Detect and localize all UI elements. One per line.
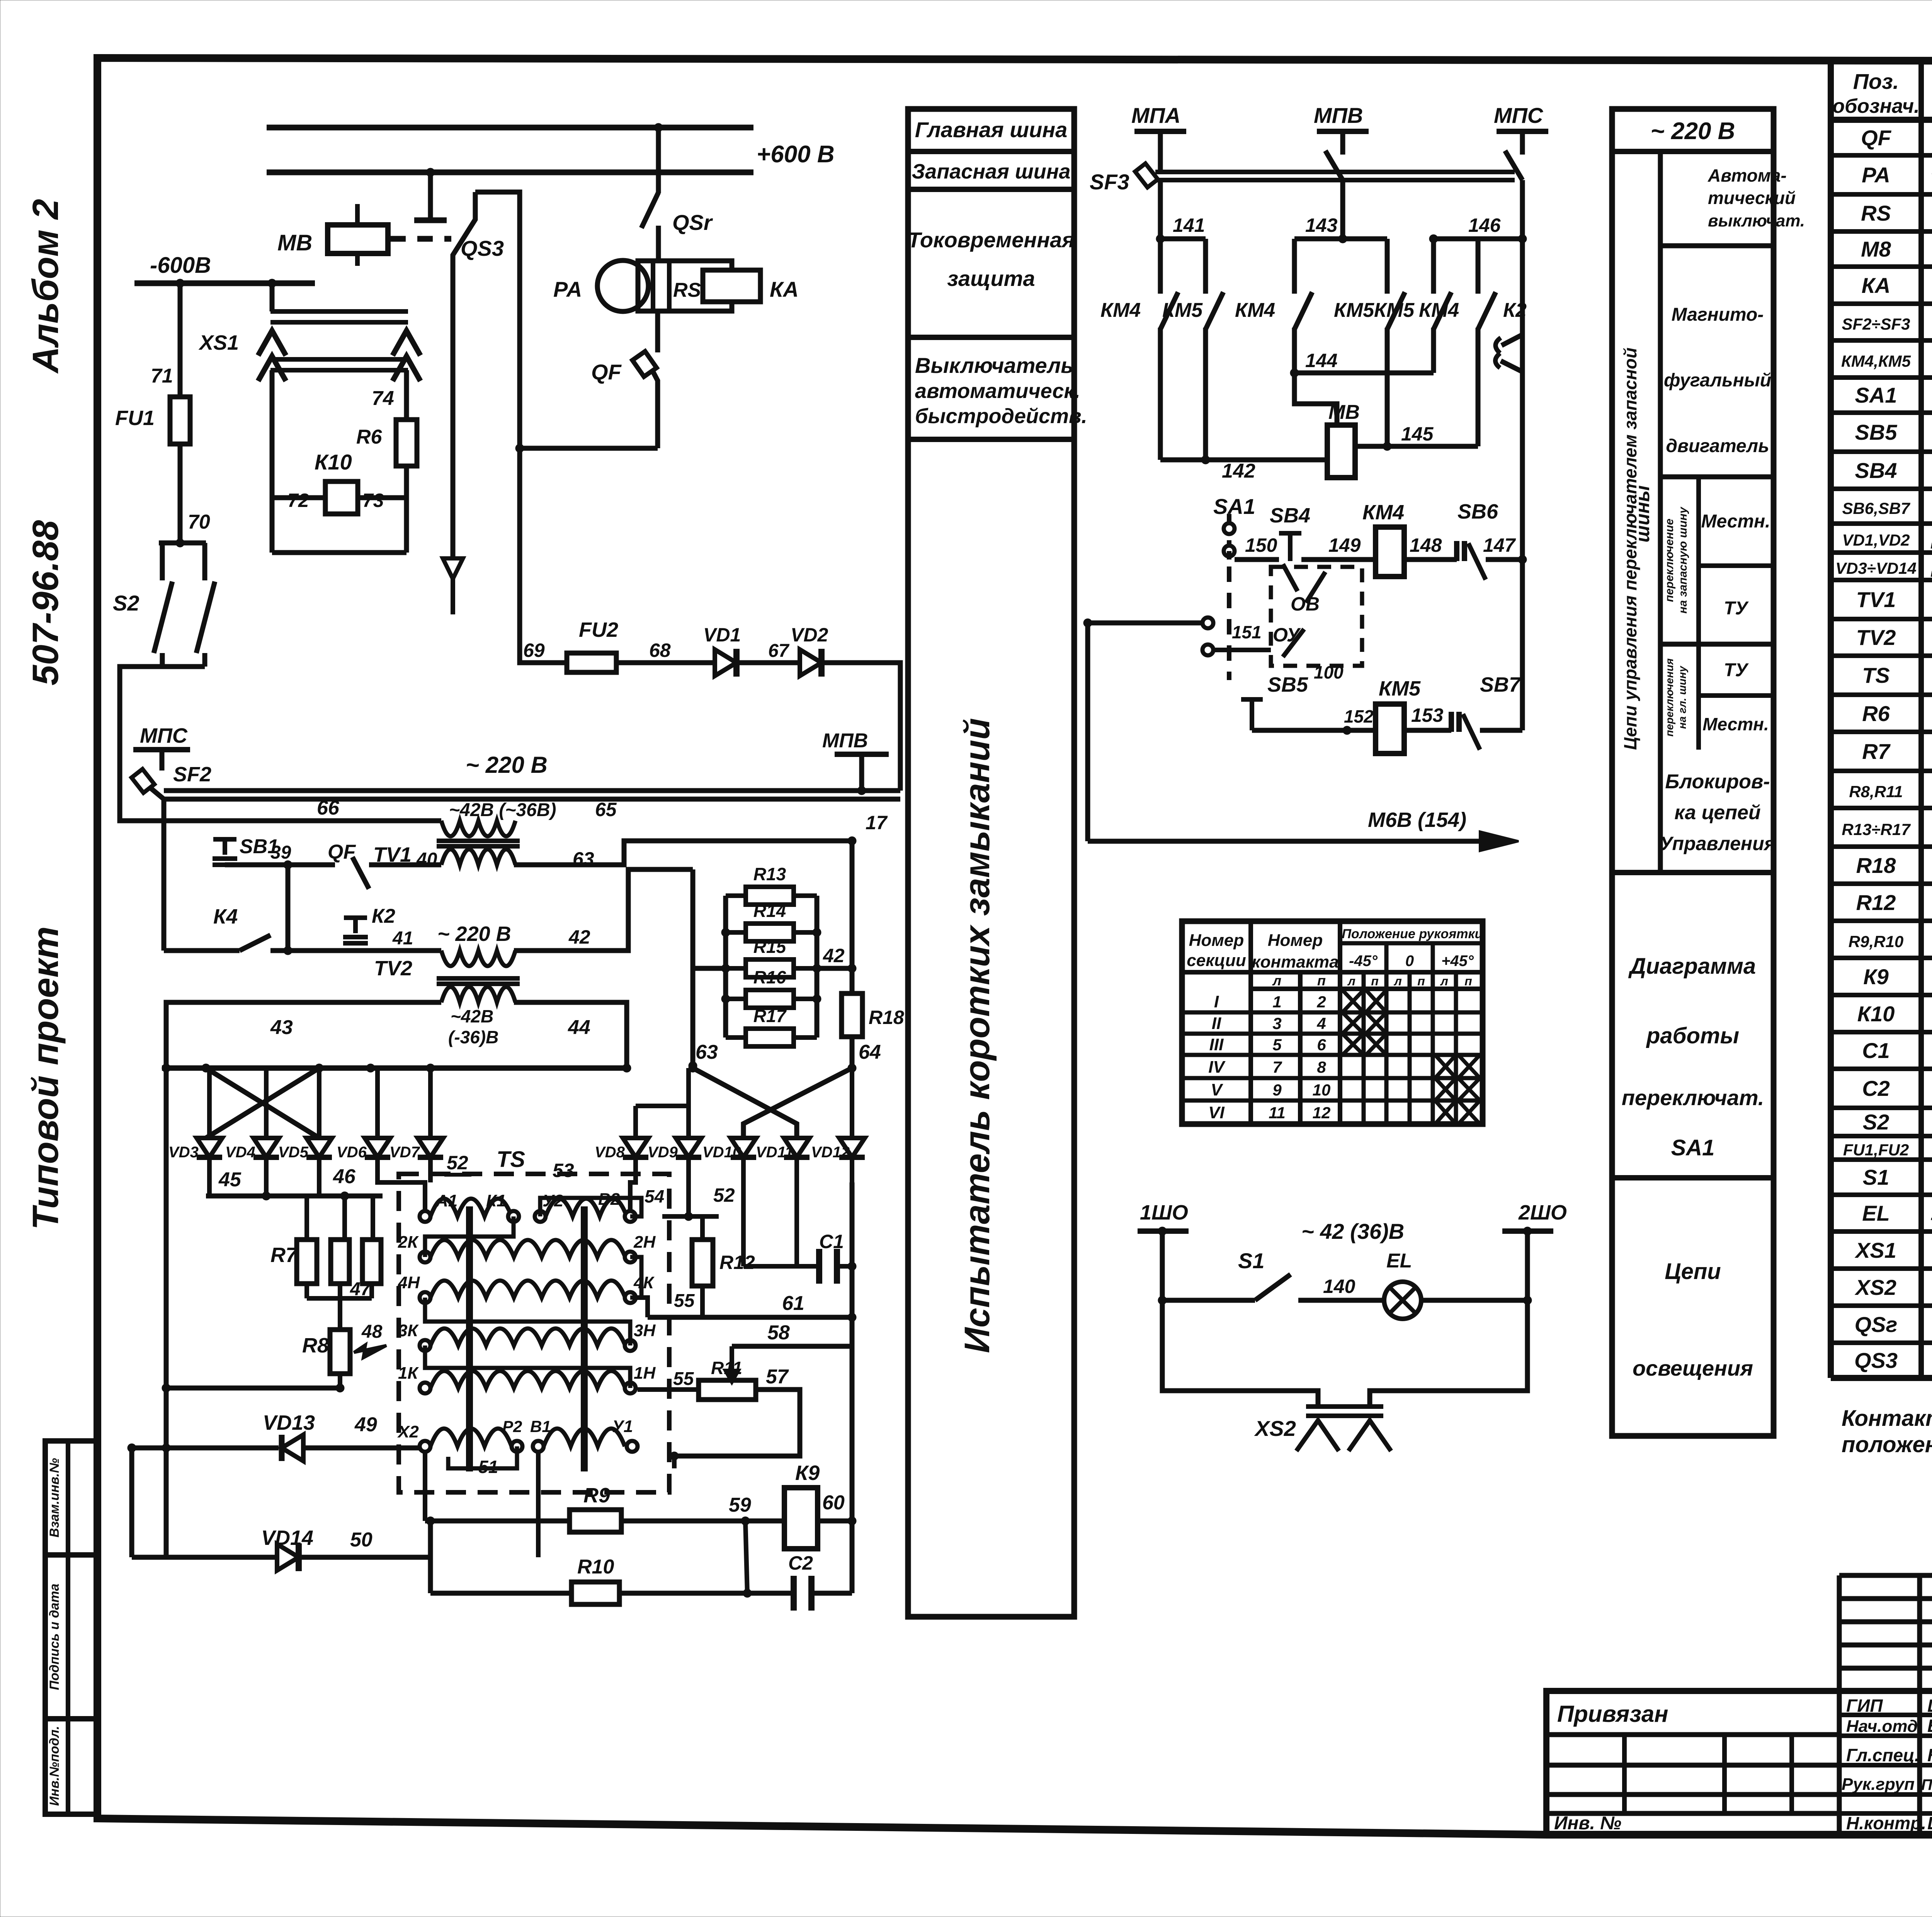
right rail VD12 down bbox=[848, 1182, 856, 1593]
parts row R18 bbox=[1856, 853, 1932, 879]
rectifier top bus bbox=[162, 1064, 631, 1072]
svg-text:142: 142 bbox=[1222, 460, 1255, 482]
node МПС (left) bbox=[133, 724, 190, 771]
diode VD11 bbox=[756, 1124, 810, 1266]
svg-text:КМ4: КМ4 bbox=[1419, 299, 1459, 321]
svg-text:VD5: VD5 bbox=[278, 1144, 309, 1161]
parts row EL bbox=[1862, 1201, 1932, 1226]
svg-text:Инв. №: Инв. № bbox=[1554, 1813, 1621, 1834]
parts row R12 bbox=[1856, 890, 1932, 916]
connector XS1 bbox=[198, 283, 420, 381]
svg-text:V: V bbox=[1211, 1080, 1223, 1099]
contact КМ5 (phase C) bbox=[1374, 239, 1451, 373]
svg-text:VD14: VD14 bbox=[261, 1526, 313, 1550]
svg-text:С2: С2 bbox=[788, 1552, 813, 1574]
TS winding row X2-51-Р2 В1-У1 bbox=[397, 1417, 638, 1477]
svg-text:153: 153 bbox=[1411, 704, 1444, 726]
svg-text:п: п bbox=[1317, 973, 1326, 988]
svg-text:Р2: Р2 bbox=[502, 1417, 522, 1436]
svg-text:141: 141 bbox=[1173, 214, 1205, 236]
diode VD10 bbox=[702, 1124, 756, 1266]
svg-text:52: 52 bbox=[447, 1152, 468, 1174]
wire 63 from TV1 bbox=[514, 837, 856, 865]
diode VD14 bbox=[132, 1448, 430, 1571]
TS winding row A1-K1 / У2-В2 bbox=[420, 1186, 664, 1222]
motor MB (М8 drive of QS3) bbox=[277, 204, 388, 266]
SA1 dashed column bbox=[1202, 514, 1235, 680]
parts row КМ4,КМ5 bbox=[1841, 345, 1932, 375]
svg-text:л: л bbox=[1347, 974, 1355, 988]
svg-text:КМ4: КМ4 bbox=[1235, 299, 1275, 321]
parts row QF bbox=[1861, 124, 1932, 153]
contact КМ4 (phase C) bbox=[1419, 239, 1496, 446]
svg-text:контакта: контакта bbox=[1252, 953, 1338, 971]
svg-text:Запасная шина: Запасная шина bbox=[912, 160, 1071, 183]
svg-text:3К: 3К bbox=[398, 1321, 419, 1340]
svg-text:152: 152 bbox=[1344, 706, 1374, 726]
wire 145 bbox=[1355, 423, 1478, 451]
parts row SB4 bbox=[1855, 458, 1932, 484]
TS winding row 3К-3Н bbox=[398, 1321, 656, 1351]
svg-text:Выключатель: Выключатель bbox=[915, 353, 1074, 378]
contact K4 bbox=[164, 799, 371, 951]
svg-text:IV: IV bbox=[1208, 1058, 1226, 1077]
svg-text:43: 43 bbox=[270, 1016, 293, 1039]
svg-text:ГИП: ГИП bbox=[1846, 1696, 1883, 1716]
svg-text:SA1: SA1 bbox=[1855, 383, 1897, 407]
svg-text:Привезенцева: Привезенцева bbox=[1921, 1776, 1932, 1793]
svg-text:МПА: МПА bbox=[1131, 103, 1180, 128]
wire S2 to SF2 rail bbox=[120, 667, 162, 821]
svg-text:39: 39 bbox=[270, 842, 291, 863]
svg-text:507-96.88: 507-96.88 bbox=[25, 520, 66, 685]
svg-text:TV2: TV2 bbox=[1856, 625, 1896, 650]
svg-text:12: 12 bbox=[1313, 1104, 1331, 1122]
svg-text:145: 145 bbox=[1401, 423, 1434, 445]
svg-text:44: 44 bbox=[568, 1016, 590, 1039]
svg-text:R12: R12 bbox=[719, 1252, 755, 1273]
svg-text:2: 2 bbox=[1316, 993, 1326, 1011]
svg-text:50: 50 bbox=[350, 1529, 372, 1551]
resistor R8 (potentiometer) bbox=[302, 1298, 386, 1392]
svg-text:4К: 4К bbox=[633, 1273, 655, 1292]
wire bus2 to QS3 fixed contact bbox=[414, 172, 447, 220]
wire 42 from TV2 to R18 rail bbox=[514, 869, 693, 951]
svg-text:~ 220 В: ~ 220 В bbox=[1651, 118, 1735, 145]
svg-text:VD12: VD12 bbox=[811, 1144, 850, 1161]
svg-text:4: 4 bbox=[1316, 1014, 1326, 1032]
svg-text:SВ7: SВ7 bbox=[1480, 673, 1522, 696]
parts row XS2 bbox=[1854, 1275, 1932, 1301]
diode VD7 bbox=[389, 1068, 443, 1182]
svg-text:~ 220 В: ~ 220 В bbox=[466, 752, 548, 778]
motor М8 (МВ) bbox=[1327, 401, 1360, 478]
parts row SF2÷SF3 bbox=[1842, 308, 1932, 338]
svg-text:секции: секции bbox=[1187, 951, 1246, 970]
svg-text:К9: К9 bbox=[795, 1461, 820, 1485]
svg-text:А1: А1 bbox=[435, 1191, 457, 1210]
svg-text:Поз.: Поз. bbox=[1853, 69, 1899, 94]
svg-text:R9: R9 bbox=[583, 1484, 610, 1507]
wire 52 node bbox=[662, 1184, 735, 1221]
contact К2 (phase C) bbox=[1495, 239, 1527, 560]
contact КМ5 (phase A) bbox=[1162, 292, 1223, 460]
svg-text:147: 147 bbox=[1483, 534, 1516, 556]
svg-text:52: 52 bbox=[713, 1184, 735, 1206]
svg-text:R16: R16 bbox=[753, 967, 786, 987]
left margin stamp table bbox=[45, 1441, 97, 1814]
resistor R9 bbox=[425, 1484, 751, 1532]
svg-text:Х2: Х2 bbox=[397, 1422, 419, 1441]
parts row FU1,FU2 bbox=[1843, 1136, 1932, 1161]
shunt RS bbox=[638, 261, 732, 311]
relay K10 bbox=[272, 370, 406, 514]
wire QF to QS3 leg bbox=[515, 444, 658, 452]
relay K9 bbox=[745, 1461, 852, 1549]
svg-text:QF: QF bbox=[1861, 126, 1892, 150]
svg-text:переключат.: переключат. bbox=[1622, 1085, 1764, 1110]
wire 59 to R10 node bbox=[745, 1521, 747, 1593]
svg-text:149: 149 bbox=[1328, 534, 1361, 556]
svg-text:ОВ: ОВ bbox=[1291, 593, 1320, 615]
svg-text:TS: TS bbox=[1862, 663, 1890, 687]
TS inner connections bbox=[425, 1198, 641, 1468]
svg-text:Гл.спец.: Гл.спец. bbox=[1846, 1745, 1920, 1765]
svg-text:КМ5: КМ5 bbox=[1374, 299, 1415, 321]
svg-text:VD7: VD7 bbox=[389, 1144, 420, 1161]
wire VD8 into TS row bbox=[630, 1163, 636, 1211]
svg-text:1ШО: 1ШО bbox=[1140, 1201, 1188, 1224]
svg-text:МПВ: МПВ bbox=[1314, 103, 1363, 128]
svg-text:КА: КА bbox=[1862, 273, 1891, 298]
svg-text:К2: К2 bbox=[372, 905, 395, 927]
svg-text:Блокиров-: Блокиров- bbox=[1665, 771, 1770, 793]
svg-text:17: 17 bbox=[866, 812, 888, 833]
svg-text:5: 5 bbox=[1272, 1036, 1282, 1054]
svg-text:SB5: SB5 bbox=[1855, 420, 1898, 444]
svg-text:КА: КА bbox=[770, 277, 799, 301]
svg-text:Блохин: Блохин bbox=[1927, 1716, 1932, 1736]
svg-text:л: л bbox=[1440, 974, 1448, 988]
svg-text:R7: R7 bbox=[270, 1243, 298, 1267]
parts row R6 bbox=[1862, 701, 1932, 727]
parts row XS1 bbox=[1854, 1238, 1932, 1264]
svg-text:55: 55 bbox=[673, 1369, 694, 1389]
wire МБВ(154) arrow bbox=[1088, 623, 1519, 851]
svg-text:R15: R15 bbox=[753, 937, 787, 957]
svg-text:74: 74 bbox=[372, 387, 394, 410]
bus ~220V double line bbox=[164, 752, 900, 799]
switch S1 bbox=[1158, 1249, 1291, 1305]
svg-text:VD13: VD13 bbox=[263, 1411, 315, 1434]
svg-text:К4: К4 bbox=[213, 905, 238, 928]
svg-text:VD4: VD4 bbox=[225, 1144, 255, 1161]
resistor R12 bbox=[674, 1216, 755, 1317]
svg-text:11: 11 bbox=[1269, 1104, 1286, 1122]
wire QS3 frame right leg bbox=[475, 192, 520, 448]
node МПВ (top) bbox=[1314, 103, 1369, 155]
svg-text:2Н: 2Н bbox=[633, 1233, 656, 1252]
svg-text:R18: R18 bbox=[869, 1007, 904, 1028]
TS winding row 2К-2Н bbox=[398, 1233, 656, 1262]
svg-text:72: 72 bbox=[287, 490, 309, 511]
svg-text:QS3: QS3 bbox=[1854, 1348, 1898, 1373]
parts list table bbox=[1831, 61, 1932, 1378]
parts row КА bbox=[1862, 273, 1932, 299]
lamp EL bbox=[1298, 1250, 1532, 1319]
left margin text: Альбом 2 bbox=[25, 199, 66, 374]
fuse FU1 bbox=[115, 283, 210, 547]
parts row R9,R10 bbox=[1849, 928, 1932, 953]
svg-text:Токовременная: Токовременная bbox=[908, 228, 1075, 252]
svg-text:42: 42 bbox=[823, 945, 845, 966]
section band: цепи управления переключателем запасной шины bbox=[1612, 109, 1805, 1436]
node МПС (top) bbox=[1494, 103, 1548, 155]
wire below K10 bbox=[272, 498, 406, 553]
ammeter PA bbox=[553, 260, 648, 311]
wire row 150-147 bbox=[1229, 534, 1527, 564]
svg-text:S1: S1 bbox=[1238, 1249, 1265, 1273]
svg-text:150: 150 bbox=[1245, 534, 1277, 556]
section band: шины / защита / выключатель / испытатель bbox=[908, 109, 1087, 1617]
mechanical link MB-QS3 (dashed) bbox=[390, 236, 451, 242]
resistor R11 potentiometer bbox=[638, 1346, 756, 1400]
svg-text:В1: В1 bbox=[530, 1417, 551, 1436]
svg-text:69: 69 bbox=[523, 640, 545, 661]
svg-text:65: 65 bbox=[595, 799, 617, 820]
svg-text:К10: К10 bbox=[1857, 1002, 1895, 1026]
svg-text:FU1: FU1 bbox=[115, 407, 155, 430]
svg-text:66: 66 bbox=[317, 797, 340, 819]
svg-text:R12: R12 bbox=[1856, 890, 1896, 915]
node 2ШО bbox=[1502, 1201, 1567, 1300]
svg-text:Цепи: Цепи bbox=[1665, 1259, 1721, 1284]
contact КМ5 (phase B) bbox=[1334, 239, 1405, 446]
svg-text:XS2: XS2 bbox=[1854, 1275, 1896, 1300]
parts row PA bbox=[1862, 160, 1932, 192]
svg-text:работы: работы bbox=[1646, 1023, 1739, 1048]
svg-text:Номер: Номер bbox=[1189, 931, 1244, 950]
title block bbox=[1546, 1575, 1932, 1835]
svg-text:III: III bbox=[1209, 1035, 1224, 1054]
svg-text:Положение рукоятки: Положение рукоятки bbox=[1342, 927, 1483, 941]
svg-text:переключение: переключение bbox=[1663, 519, 1676, 602]
contact КМ4 (phase A) bbox=[1100, 239, 1178, 460]
parts row QS3 bbox=[1854, 1348, 1932, 1374]
svg-text:Автома-: Автома- bbox=[1708, 165, 1787, 185]
svg-text:Местн.: Местн. bbox=[1701, 511, 1770, 532]
svg-text:выключат.: выключат. bbox=[1708, 211, 1805, 230]
wire row 39 with QF aux contact bbox=[237, 841, 441, 955]
svg-text:S1: S1 bbox=[1863, 1165, 1889, 1189]
svg-text:VD1: VD1 bbox=[703, 624, 741, 646]
svg-text:140: 140 bbox=[1323, 1276, 1355, 1297]
svg-text:41: 41 bbox=[392, 928, 413, 949]
svg-text:71: 71 bbox=[151, 365, 173, 387]
svg-text:68: 68 bbox=[649, 640, 671, 661]
svg-text:64: 64 bbox=[859, 1041, 881, 1063]
wire R8 to left rail bbox=[162, 1068, 340, 1557]
svg-text:ТУ: ТУ bbox=[1724, 660, 1749, 680]
svg-text:М6В (154): М6В (154) bbox=[1368, 808, 1466, 832]
svg-text:R8: R8 bbox=[302, 1334, 329, 1357]
svg-text:R7: R7 bbox=[1862, 739, 1891, 764]
svg-text:RS: RS bbox=[1861, 201, 1891, 225]
svg-text:PA: PA bbox=[1862, 163, 1890, 187]
coil КМ5 bbox=[1376, 677, 1421, 754]
svg-text:~42В: ~42В bbox=[451, 1006, 493, 1026]
svg-text:RS: RS bbox=[673, 279, 701, 301]
svg-text:ХS1: ХS1 bbox=[198, 331, 239, 354]
svg-text:EL: EL bbox=[1862, 1201, 1890, 1225]
capacitor C1 bbox=[743, 1231, 854, 1284]
breaker QF (main) bbox=[591, 311, 658, 448]
parts row SB6,SB7 bbox=[1842, 495, 1932, 520]
svg-text:на запасную шину: на запасную шину bbox=[1677, 507, 1689, 614]
svg-text:SВ6: SВ6 bbox=[1458, 500, 1498, 523]
diode VD8 bbox=[595, 1106, 689, 1182]
svg-text:Взам.инв.№: Взам.инв.№ bbox=[47, 1458, 62, 1538]
svg-text:ТS: ТS bbox=[497, 1147, 525, 1172]
svg-text:VD11: VD11 bbox=[756, 1144, 793, 1161]
svg-text:Цепи управления переключателем: Цепи управления переключателем запасной bbox=[1620, 347, 1640, 750]
svg-text:1Н: 1Н bbox=[634, 1364, 656, 1383]
svg-text:Главная шина: Главная шина bbox=[915, 117, 1068, 142]
svg-text:п: п bbox=[1417, 974, 1425, 988]
svg-text:VD3÷VD14: VD3÷VD14 bbox=[1835, 559, 1917, 577]
svg-text:VD3: VD3 bbox=[168, 1144, 199, 1161]
svg-text:SF3: SF3 bbox=[1090, 170, 1129, 194]
svg-text:+45°: +45° bbox=[1441, 953, 1474, 970]
svg-text:двигатель: двигатель bbox=[1666, 436, 1769, 456]
relay KA bbox=[703, 270, 799, 302]
svg-text:Местн.: Местн. bbox=[1702, 714, 1769, 734]
svg-text:151: 151 bbox=[1232, 622, 1262, 642]
resistor R6 bbox=[356, 370, 417, 498]
wire 58 bbox=[732, 1322, 853, 1346]
diode VD1 bbox=[703, 624, 800, 677]
parts row К9 bbox=[1863, 964, 1932, 990]
svg-text:46: 46 bbox=[333, 1165, 356, 1188]
coil КМ4 bbox=[1362, 501, 1404, 577]
svg-text:Альбом 2: Альбом 2 bbox=[25, 199, 66, 374]
svg-text:Щетинский: Щетинский bbox=[1927, 1696, 1932, 1716]
button SB1 bbox=[213, 835, 279, 865]
svg-text:фугальный: фугальный bbox=[1664, 370, 1771, 391]
svg-text:1: 1 bbox=[1272, 993, 1281, 1011]
svg-text:Испытатель коротких замыкани: Испытатель коротких замыканий bbox=[957, 718, 997, 1353]
svg-text:Контакты конечных выключател: Контакты конечных выключателей SВ6 и SВ7… bbox=[1842, 1406, 1932, 1431]
svg-text:R17: R17 bbox=[753, 1006, 787, 1026]
svg-text:Н.контр.: Н.контр. bbox=[1846, 1813, 1926, 1833]
svg-text:У2: У2 bbox=[543, 1191, 564, 1210]
note about SB6/SB7 contacts bbox=[1842, 1406, 1932, 1457]
left margin text: 507-96.88 bbox=[25, 520, 66, 685]
svg-text:60: 60 bbox=[822, 1492, 845, 1514]
contact K2 bbox=[343, 905, 413, 949]
diode VD6 bbox=[337, 1068, 390, 1182]
svg-text:КМ4: КМ4 bbox=[1100, 299, 1141, 321]
svg-text:защита: защита bbox=[947, 266, 1035, 291]
svg-text:ТУ: ТУ bbox=[1724, 598, 1749, 619]
wire QS3 frame to FU2 row bbox=[520, 448, 567, 663]
svg-text:I: I bbox=[1214, 992, 1219, 1011]
svg-text:SB4: SB4 bbox=[1855, 458, 1897, 483]
wire VD6 VD7 into TS bbox=[378, 1163, 430, 1211]
svg-text:VD9: VD9 bbox=[648, 1144, 678, 1161]
wire 144 bbox=[1290, 350, 1434, 425]
svg-text:R8,R11: R8,R11 bbox=[1849, 782, 1903, 801]
svg-text:Привязан: Привязан bbox=[1557, 1701, 1668, 1727]
svg-text:0: 0 bbox=[1405, 953, 1414, 970]
svg-text:~ 42 (36)В: ~ 42 (36)В bbox=[1301, 1219, 1404, 1243]
svg-text:ка цепей: ка цепей bbox=[1674, 801, 1760, 824]
wire phase B drop bbox=[1294, 180, 1387, 243]
svg-text:49: 49 bbox=[354, 1414, 377, 1436]
svg-text:100: 100 bbox=[1314, 662, 1344, 682]
svg-text:КМ5: КМ5 bbox=[1334, 299, 1374, 321]
wire QS3 left leg down with arrow end bbox=[443, 284, 463, 614]
limit switch SB6 bbox=[1457, 500, 1498, 580]
node Запасная шина bus bbox=[267, 168, 753, 177]
svg-text:положении QS3 на главной ш: положении QS3 на главной шине. bbox=[1842, 1432, 1932, 1457]
svg-text:143: 143 bbox=[1305, 214, 1338, 236]
parts row S1 bbox=[1863, 1165, 1932, 1191]
svg-text:SF2÷SF3: SF2÷SF3 bbox=[1842, 315, 1910, 333]
parts row VD3÷VD14 bbox=[1835, 555, 1932, 580]
parts row TS bbox=[1862, 660, 1932, 692]
magnetic amplifier TS (dashed box) bbox=[399, 1147, 669, 1492]
svg-text:R6: R6 bbox=[356, 426, 383, 448]
svg-text:МПС: МПС bbox=[1494, 103, 1544, 128]
disconnector QSr bbox=[641, 128, 713, 261]
svg-text:SВ4: SВ4 bbox=[1270, 504, 1310, 527]
svg-text:тический: тический bbox=[1708, 188, 1796, 208]
wire row 152-153 bbox=[1252, 704, 1451, 735]
svg-text:~42В (~36В): ~42В (~36В) bbox=[449, 800, 556, 820]
svg-text:9: 9 bbox=[1272, 1081, 1282, 1099]
svg-text:QSr: QSr bbox=[672, 210, 713, 235]
wire 43 / 44 secondary line bbox=[166, 1002, 627, 1068]
parts row RS bbox=[1861, 199, 1932, 229]
svg-text:л: л bbox=[1393, 974, 1402, 988]
svg-text:10: 10 bbox=[1313, 1081, 1331, 1099]
wire 61 bbox=[636, 1292, 853, 1317]
svg-text:МПС: МПС bbox=[140, 724, 188, 747]
svg-text:-45°: -45° bbox=[1349, 953, 1378, 970]
svg-text:7: 7 bbox=[1272, 1058, 1282, 1076]
wire 49/X2 column down bbox=[425, 1452, 538, 1557]
svg-text:FU1,FU2: FU1,FU2 bbox=[1843, 1141, 1909, 1159]
svg-text:73: 73 bbox=[362, 490, 384, 511]
switch S2 bbox=[113, 543, 215, 667]
parts row QSг bbox=[1855, 1312, 1932, 1338]
svg-text:Шишло: Шишло bbox=[1927, 1813, 1932, 1833]
svg-text:КМ4: КМ4 bbox=[1362, 501, 1404, 524]
svg-text:МВ: МВ bbox=[277, 230, 312, 255]
button SB4 bbox=[1270, 504, 1310, 591]
svg-text:4Н: 4Н bbox=[398, 1273, 420, 1292]
svg-text:1К: 1К bbox=[398, 1364, 419, 1383]
svg-text:КМ5: КМ5 bbox=[1162, 299, 1203, 321]
svg-text:Номер: Номер bbox=[1268, 931, 1323, 950]
svg-text:КМ5: КМ5 bbox=[1379, 677, 1421, 700]
SA1 position table bbox=[1182, 921, 1483, 1124]
svg-text:М8: М8 bbox=[1861, 237, 1891, 261]
button SB5 bbox=[1241, 662, 1344, 730]
left crossing X bbox=[206, 1068, 319, 1138]
svg-text:VD6: VD6 bbox=[337, 1144, 367, 1161]
